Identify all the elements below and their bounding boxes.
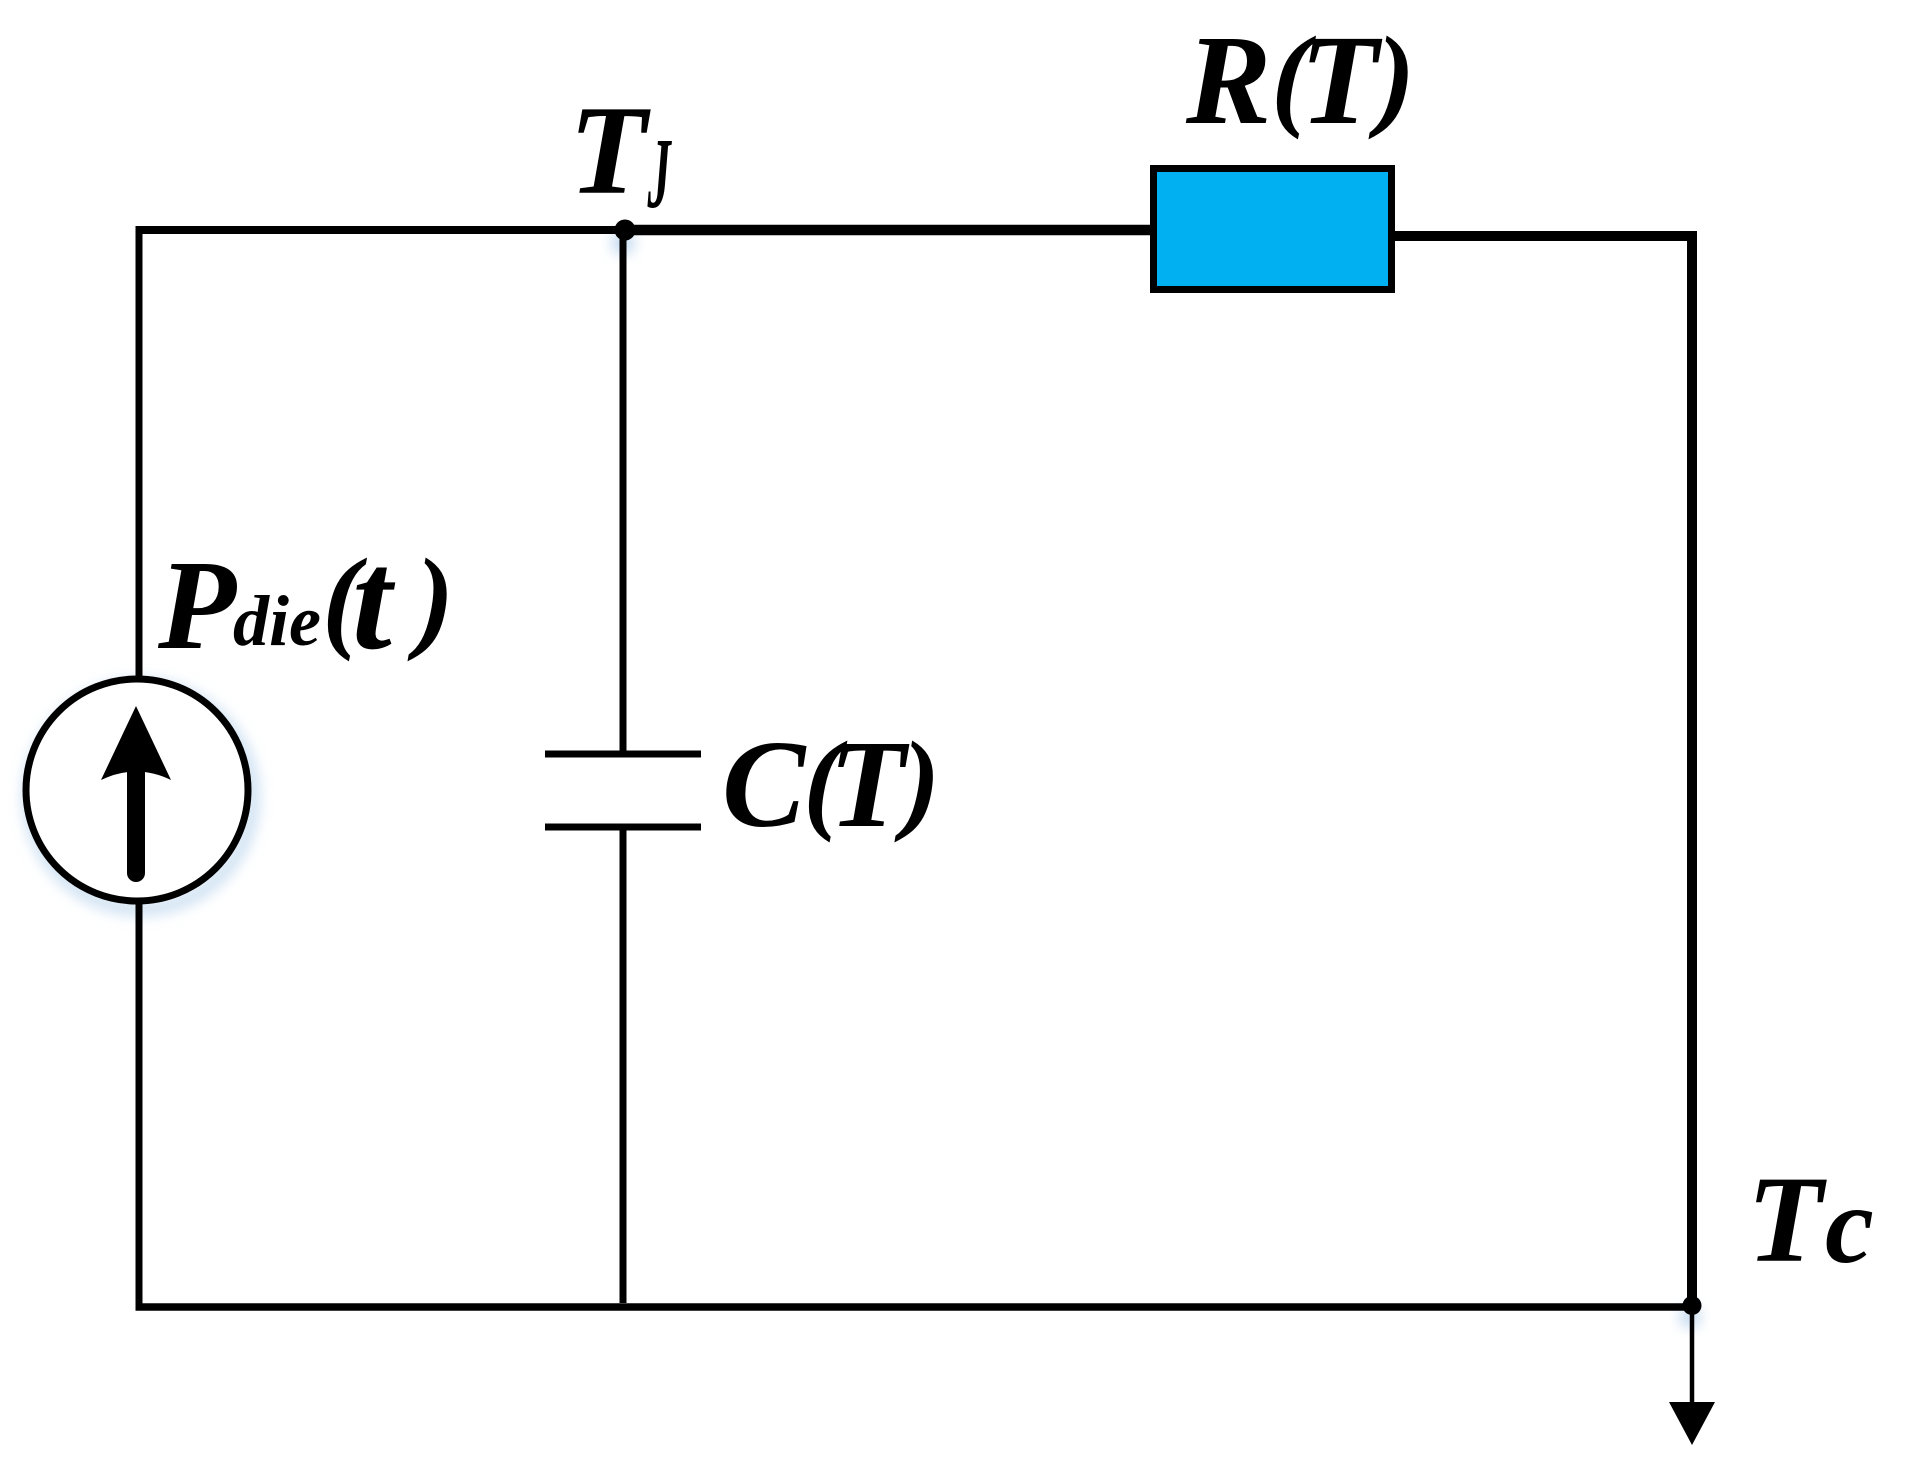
svg-text:t: t [352,521,396,679]
svg-text:die: die [233,581,321,661]
svg-text:T: T [1300,9,1383,151]
svg-text:P: P [157,534,237,676]
svg-text:T: T [1747,1151,1827,1288]
svg-text:R: R [1185,9,1271,151]
svg-text:c: c [1825,1164,1874,1286]
svg-text:T: T [569,81,651,221]
svg-text:J: J [647,118,672,230]
svg-text:C: C [722,716,807,854]
svg-text:T: T [829,716,910,854]
